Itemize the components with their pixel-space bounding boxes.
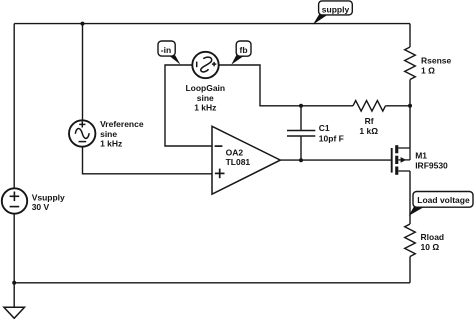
svg-text:Rload: Rload	[421, 232, 445, 242]
svg-text:-in: -in	[161, 45, 171, 55]
svg-text:TL081: TL081	[226, 157, 251, 167]
svg-text:IRF9530: IRF9530	[415, 160, 448, 170]
svg-text:Load voltage: Load voltage	[417, 195, 470, 205]
svg-text:fb: fb	[239, 45, 247, 55]
svg-text:M1: M1	[415, 151, 427, 161]
svg-text:LoopGain: LoopGain	[185, 83, 225, 93]
svg-text:C1: C1	[319, 123, 330, 133]
svg-text:1 Ω: 1 Ω	[421, 65, 435, 75]
svg-text:10pf F: 10pf F	[319, 134, 344, 144]
svg-text:Rf: Rf	[365, 116, 374, 126]
svg-text:Vreference: Vreference	[100, 119, 144, 129]
svg-text:Rsense: Rsense	[421, 55, 452, 65]
svg-text:10 Ω: 10 Ω	[421, 242, 440, 252]
svg-text:1 kHz: 1 kHz	[194, 103, 216, 113]
svg-text:Vsupply: Vsupply	[32, 192, 65, 202]
svg-text:sine: sine	[100, 129, 117, 139]
svg-text:30 V: 30 V	[32, 202, 50, 212]
svg-text:1 kHz: 1 kHz	[100, 139, 122, 149]
svg-text:1 kΩ: 1 kΩ	[359, 126, 378, 136]
svg-text:OA2: OA2	[226, 147, 244, 157]
svg-text:supply: supply	[322, 4, 350, 14]
svg-text:sine: sine	[197, 93, 214, 103]
